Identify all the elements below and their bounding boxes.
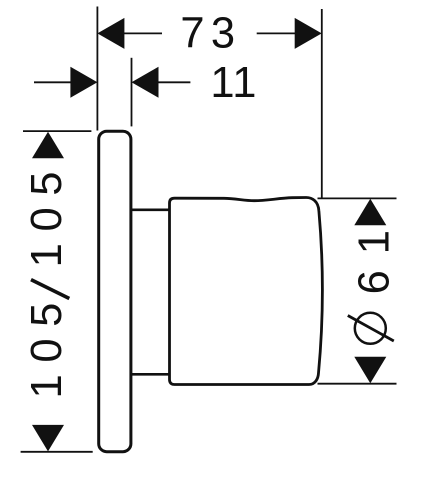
extension line wall face (left, vertical) [96,7,98,131]
dimension 73: right tail [257,32,296,34]
dimension 11: left arrow (points right) [70,67,97,98]
dimension 105/105: top extension line [23,130,91,132]
dimension 11: left leader [34,81,71,83]
neck top line [132,209,170,212]
dimension 105/105: bottom extension line [21,451,93,453]
dimension d61: diameter symbol slash [348,316,394,342]
dimension d61: up arrow [354,199,386,226]
dimension 105/105: down arrow [32,425,64,452]
dimension d61: top extension line [318,197,397,199]
dimension d61: diameter symbol circle [355,313,386,344]
dimension 11: right tail [158,81,191,83]
flange (wall plate, side view) [99,131,131,452]
dimension 11: right arrow (points left) [132,67,159,98]
dimension d61: down arrow [354,357,386,384]
handle (side profile) [170,197,323,384]
dimension 73: left arrow [97,18,124,49]
extension line handle front (right, vertical) [321,9,323,199]
dimension d61: bottom extension line [318,383,397,385]
dimension 73: left tail [124,32,163,34]
extension line flange front (vertical) [131,58,133,127]
svg-text:11: 11 [210,59,256,107]
dimension 105/105: up arrow [32,132,64,159]
dimension 105/105: slash of label [31,280,69,299]
dimension 73: right arrow [295,18,322,49]
neck bottom line [132,373,170,376]
